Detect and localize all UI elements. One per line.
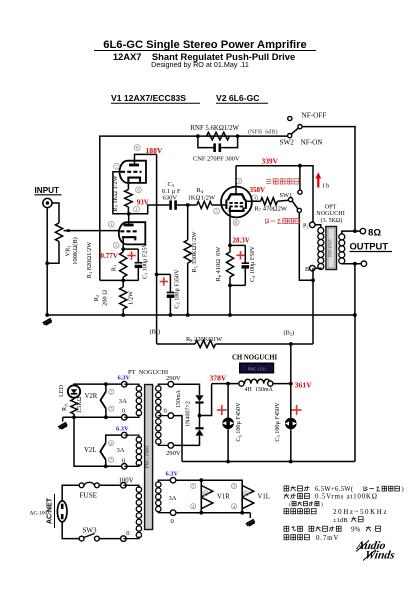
C6 plus mark [217,405,227,415]
wire R3 bottom to node [127,207,129,214]
node R5 ground [186,313,190,317]
SW2 NF-ON throw [298,125,302,129]
node beam connection to B line [311,278,315,282]
terminal 6.3V V1 [170,477,176,483]
svg-text:100KΩ(B): 100KΩ(B) [72,237,79,264]
switch SW2 pole [288,134,292,138]
pin 8 label [136,187,142,193]
svg-text:NOGUCHI: NOGUCHI [316,210,345,217]
pin labels V2 [236,178,242,184]
wire fuse to 100V terminal [99,484,120,486]
wire to ground bus [229,285,231,315]
heater pins V2R [109,389,114,394]
svg-text:V1 12AX7/ECC83S: V1 12AX7/ECC83S [111,93,186,103]
wire jack sleeve down [46,208,48,264]
svg-text:V1R: V1R [217,493,230,500]
node RNF right [236,134,240,138]
svg-text:(: ( [289,501,291,508]
wire V1a cathode to R3 [127,184,129,190]
PT primary winding 100V [136,487,141,492]
svg-text:(B1): (B1) [150,329,161,336]
svg-text:NF-OFF: NF-OFF [302,112,327,120]
V1b grid (dashed) [120,230,137,232]
terminal 6.3V-1 [122,381,128,387]
8ohm terminal [360,228,365,233]
node C6 ground [226,460,230,464]
resistor R7 [261,198,278,205]
svg-text:R8 220KΩ1W: R8 220KΩ1W [186,336,223,343]
fuse F1 [79,483,84,488]
switch SW3 [79,536,84,541]
svg-text:6.3V: 6.3V [118,375,131,382]
node R2 ground [121,313,125,317]
node R6/C4 bottom [230,277,245,285]
V1a cathode [128,178,140,184]
svg-text:I b: I b [323,183,330,190]
wire plug to SW3 [62,522,79,539]
node B2 junction [289,342,293,346]
SW2 blade [291,128,298,134]
svg-text:290V: 290V [166,375,181,382]
node V2L bottom [104,464,108,468]
svg-text:C6 100μ F450V: C6 100μ F450V [235,402,242,442]
choke coil [245,379,271,383]
specs line2: input sensitivity [284,494,289,499]
svg-text:SW3: SW3 [83,526,98,534]
svg-text:188V: 188V [146,146,163,155]
specs block line1: max output [284,486,289,491]
terminal 6.3V-2 [122,432,128,438]
V2 grids (dashed) [229,202,243,204]
diode D2 [195,427,203,429]
svg-text:PT NOGUCHI: PT NOGUCHI [128,369,168,376]
capacitor CNF loop [198,136,213,148]
svg-text:9%: 9% [351,525,361,533]
svg-text:CH NOGUCHI: CH NOGUCHI [232,355,277,362]
svg-text:6.3V: 6.3V [116,426,129,433]
node bus right [353,313,357,317]
svg-text:1N4007×2: 1N4007×2 [185,401,191,427]
wire node to V1b plate [128,214,130,224]
SW1 blade [292,201,298,209]
svg-text:AC-100V: AC-100V [30,511,52,517]
capacitor C1 [123,248,138,250]
V2L loop wire [74,417,106,466]
B1/B2 line with R8 [157,343,195,345]
node VR1-bottom / jack-ground junction [45,261,49,265]
node triode tap on 339V [298,164,302,168]
heater V2R [105,384,107,391]
Audio Winds logo [355,539,387,552]
terminal 290V bottom [168,443,174,449]
wire secondary bottom [342,263,361,265]
wire V2 screen to R7 [247,200,261,202]
wire B1 supply riser [156,154,158,274]
node R6 ground [228,313,232,317]
wire NF-ON to output [302,127,355,232]
ground symbol heater [62,417,64,421]
V1a plate [129,164,139,167]
svg-text:C4 100μ F50V: C4 100μ F50V [249,245,256,282]
svg-text:1/2W: 1/2W [128,290,135,305]
node input ground on bus [45,313,49,317]
node output ground [353,262,357,266]
heater rail top V1 [176,480,242,484]
wire wiper to V1 grid [64,230,120,232]
node C2 tap [155,273,159,277]
SW1 triode throw [298,190,302,194]
heater pins V2L [108,441,113,446]
svg-text:V2 6L6-GC: V2 6L6-GC [216,93,259,103]
svg-text:Designed by RO at 01.May .11: Designed by RO at 01.May .11 [151,60,249,69]
specs line6: distortion [284,526,289,531]
OPT primary coil [315,225,321,228]
OPT core [326,227,337,270]
node 378V / C6 tap [226,382,230,386]
wire VR1 bottom to ground bus [47,242,59,264]
svg-text:8Ω: 8Ω [368,228,381,239]
wire 339V to triode throw [299,166,301,190]
capacitor C2 [157,273,171,275]
capacitor C3 [169,200,172,209]
capacitor C6 [227,384,229,418]
LED pilot lamp [68,385,80,397]
capacitor C4 [230,244,245,246]
svg-text:RNF 5.6KΩ1/2W: RNF 5.6KΩ1/2W [191,125,240,132]
V1a grid (dashed) [121,171,142,173]
svg-text:NF-ON: NF-ON [301,139,324,147]
svg-text:C5 100μ F450V: C5 100μ F450V [274,402,281,442]
V1b plate [124,224,134,227]
specs line4: frequency response [284,509,289,514]
wire R1 bottom junction [122,277,124,287]
svg-text:28.3V: 28.3V [233,237,250,245]
wire V2 cathode down [229,211,231,252]
B terminal [310,265,316,271]
svg-text:FUSE: FUSE [80,492,98,500]
wire plug to fuse [62,485,79,501]
wire V1a grid loop [113,172,129,214]
terminal 100V [121,483,127,489]
svg-text:6.3V: 6.3V [166,471,179,478]
wire R4 to V2 grid [212,204,227,206]
pin 3 label [113,242,119,248]
heater V1R [200,480,202,513]
svg-text:CNF 270PF 300V: CNF 270PF 300V [193,156,240,163]
wire node to C3 (jog) [129,205,170,214]
triode V1b envelope [119,222,146,244]
wire beam throw to B terminal line [299,213,313,281]
svg-text:4H 150mA: 4H 150mA [245,387,274,393]
svg-text:0.7mV: 0.7mV [316,534,339,542]
terminal 290V top [168,381,174,387]
heater V1L [241,484,243,513]
resistor R6 [226,252,233,277]
PT heater winding V1 [156,482,161,487]
wire 290V top to diode [174,384,200,395]
node C5 ground [289,460,293,464]
wire jack to VR1 top [52,203,59,223]
svg-text:PMC-150M: PMC-150M [145,446,150,468]
pin 6 label [134,145,140,151]
terminal CT [168,413,174,419]
node heater rail tap [104,382,108,386]
svg-text:339V: 339V [262,156,279,165]
svg-text:630V: 630V [163,194,178,201]
P1 terminal [310,222,316,228]
svg-text:R5 330KΩ1/2W: R5 330KΩ1/2W [191,230,198,272]
V1R pins [191,483,196,488]
svg-text:150mA: 150mA [176,389,182,408]
node V1L bottom [240,511,244,515]
node cathode/C4 [228,244,232,248]
svg-text:SW1: SW1 [280,192,293,199]
svg-text:SW2: SW2 [280,139,295,147]
wire choke line [212,383,239,385]
node RNF left [196,134,200,138]
node rectifier output [198,414,202,418]
svg-text:V2L: V2L [84,447,96,454]
PT core [145,385,153,530]
node NFB takeoff [353,229,357,233]
svg-text:V2R: V2R [85,393,98,400]
resistor R3 [125,190,133,208]
svg-text:(NFB 6dB): (NFB 6dB) [248,129,278,136]
svg-text:): ) [402,486,404,493]
node R1/R2/NFB junction [121,279,125,283]
terminal 0-2 [122,464,128,470]
wire B terminal riser [312,268,314,344]
resistor R8 [195,340,216,347]
svg-text:20Hz~50KHz: 20Hz~50KHz [333,508,388,516]
potentiometer VR1 [55,223,62,242]
wire PSU bus to main ground [354,315,356,462]
pin 2 label [108,221,114,227]
svg-text:(B2): (B2) [284,330,295,337]
svg-text:B: B [305,266,309,273]
svg-text:378V: 378V [210,373,227,382]
Ib arrow [317,177,319,188]
terminal 0 V1 [170,510,176,516]
resistor R4 [197,201,212,208]
svg-text:C2 100μ F350V: C2 100μ F350V [174,269,181,309]
svg-text:290V: 290V [166,450,181,457]
svg-text:3A: 3A [117,447,125,454]
resistor R2 [120,287,127,309]
svg-text:100V: 100V [119,477,134,484]
svg-text:C1 100μ F25V: C1 100μ F25V [142,242,149,279]
terminal 0-1 [122,415,128,421]
svg-text:1.5KΩ: 1.5KΩ [76,396,83,413]
PT HV secondary [156,386,161,391]
svg-text:361V: 361V [295,381,312,390]
V1L pins [231,483,236,488]
svg-text:PMC-1150: PMC-1150 [248,366,266,371]
V1b cathode [123,237,135,240]
node V2R heater bottom [104,415,108,419]
wire R7 to SW1 pole [278,200,289,201]
SW1 beam throw [297,208,301,212]
wire junction to choke riser [200,384,212,416]
terminal 0-pri [121,536,127,542]
resistor RNF [207,132,230,140]
PSU ground bus [182,461,355,463]
svg-text:358V: 358V [250,186,266,194]
beam tetrode V2 envelope [221,187,252,218]
svg-text:LED: LED [58,384,65,397]
svg-text:3A: 3A [169,495,177,502]
ground symbol heater V1 [249,513,251,518]
V2 plate structure [228,194,245,200]
AC plug [57,501,67,522]
pin 7 label [114,163,120,169]
V2 beam plates [225,200,227,209]
diode D1 [195,395,203,401]
svg-text:(3. 5KΩ): (3. 5KΩ) [321,217,343,224]
switch SW1 pole [289,198,293,202]
resistor R11 [73,398,75,399]
node V1R top [199,478,203,482]
svg-text:6L6-GC Single Stereo Power Amp: 6L6-GC Single Stereo Power Amprifire [103,39,307,51]
specs line7: residual noise [284,535,289,540]
OPT secondary coil [339,234,345,240]
wire center tap to PSU ground [174,416,182,462]
wire C3 to R4 [177,204,197,206]
wire SW3 to 0 terminal [99,538,120,540]
svg-text:3A: 3A [119,398,127,405]
wire output ground to bus [354,264,356,315]
PT heater winding 2 (V2L) [136,437,141,442]
svg-text:0.5Vrms at100KΩ: 0.5Vrms at100KΩ [315,493,378,501]
VR1 wiper arrow [64,229,70,233]
node 361V [289,382,293,386]
triode connection label (jp) [266,179,271,183]
choke box [240,363,274,372]
svg-text:INPUT: INPUT [35,186,60,195]
node R11 ground [72,415,76,419]
wire V1b cathode down [122,239,124,252]
svg-text:OUTPUT: OUTPUT [350,241,389,252]
wire LED to 6.3V rail [74,384,122,385]
svg-text:1KΩ1/2W: 1KΩ1/2W [188,194,216,201]
ground symbol input [43,319,52,326]
beam connection label (jp) [266,219,270,224]
svg-text:PMF-10WS: PMF-10WS [329,239,333,256]
pin 1 label [134,206,140,212]
output cold terminal [361,261,366,266]
ground bus wire [47,314,355,316]
heater V2L [106,435,122,443]
svg-text:200 Ω: 200 Ω [102,290,109,306]
svg-text:): ) [321,501,323,508]
resistor R5 [187,205,189,240]
node SRPP output junction [127,212,131,216]
svg-text:V1L: V1L [258,493,270,500]
svg-text:0.77V: 0.77V [101,252,118,260]
wire V2 plate to 339V line [235,166,237,194]
PT heater winding 1 (V2R) [136,386,141,391]
node cathode/C1 junction [121,247,125,251]
wire secondary top to 8ohm [342,231,360,234]
wire B2 to choke 361V [290,344,292,384]
V2 cathode [230,207,244,211]
node V1R bottom [199,511,203,515]
triode V1a envelope [120,161,146,183]
C4 plus mark [236,251,244,259]
C2 plus mark [160,277,168,285]
C1 plus mark [127,251,135,259]
SW2 NF-OFF throw [288,116,292,120]
node C2 ground [169,313,173,317]
input jack J1 [43,198,52,207]
capacitor C5 [290,384,292,418]
heater 0 rail [63,416,122,418]
wire NFB line [100,136,288,280]
C5 plus mark [292,405,302,415]
wire V1a plate to 188V feed [135,154,157,163]
heater rail bottom V1 [176,512,250,514]
node R4/R5 junction [186,203,190,207]
svg-text:R11: R11 [62,403,68,411]
svg-text:R1 820Ω1/2W: R1 820Ω1/2W [86,241,93,279]
339V supply line [236,166,313,222]
svg-text:±1dB: ±1dB [333,517,348,524]
choke terminals [239,381,244,386]
resistor R1 [120,252,127,277]
